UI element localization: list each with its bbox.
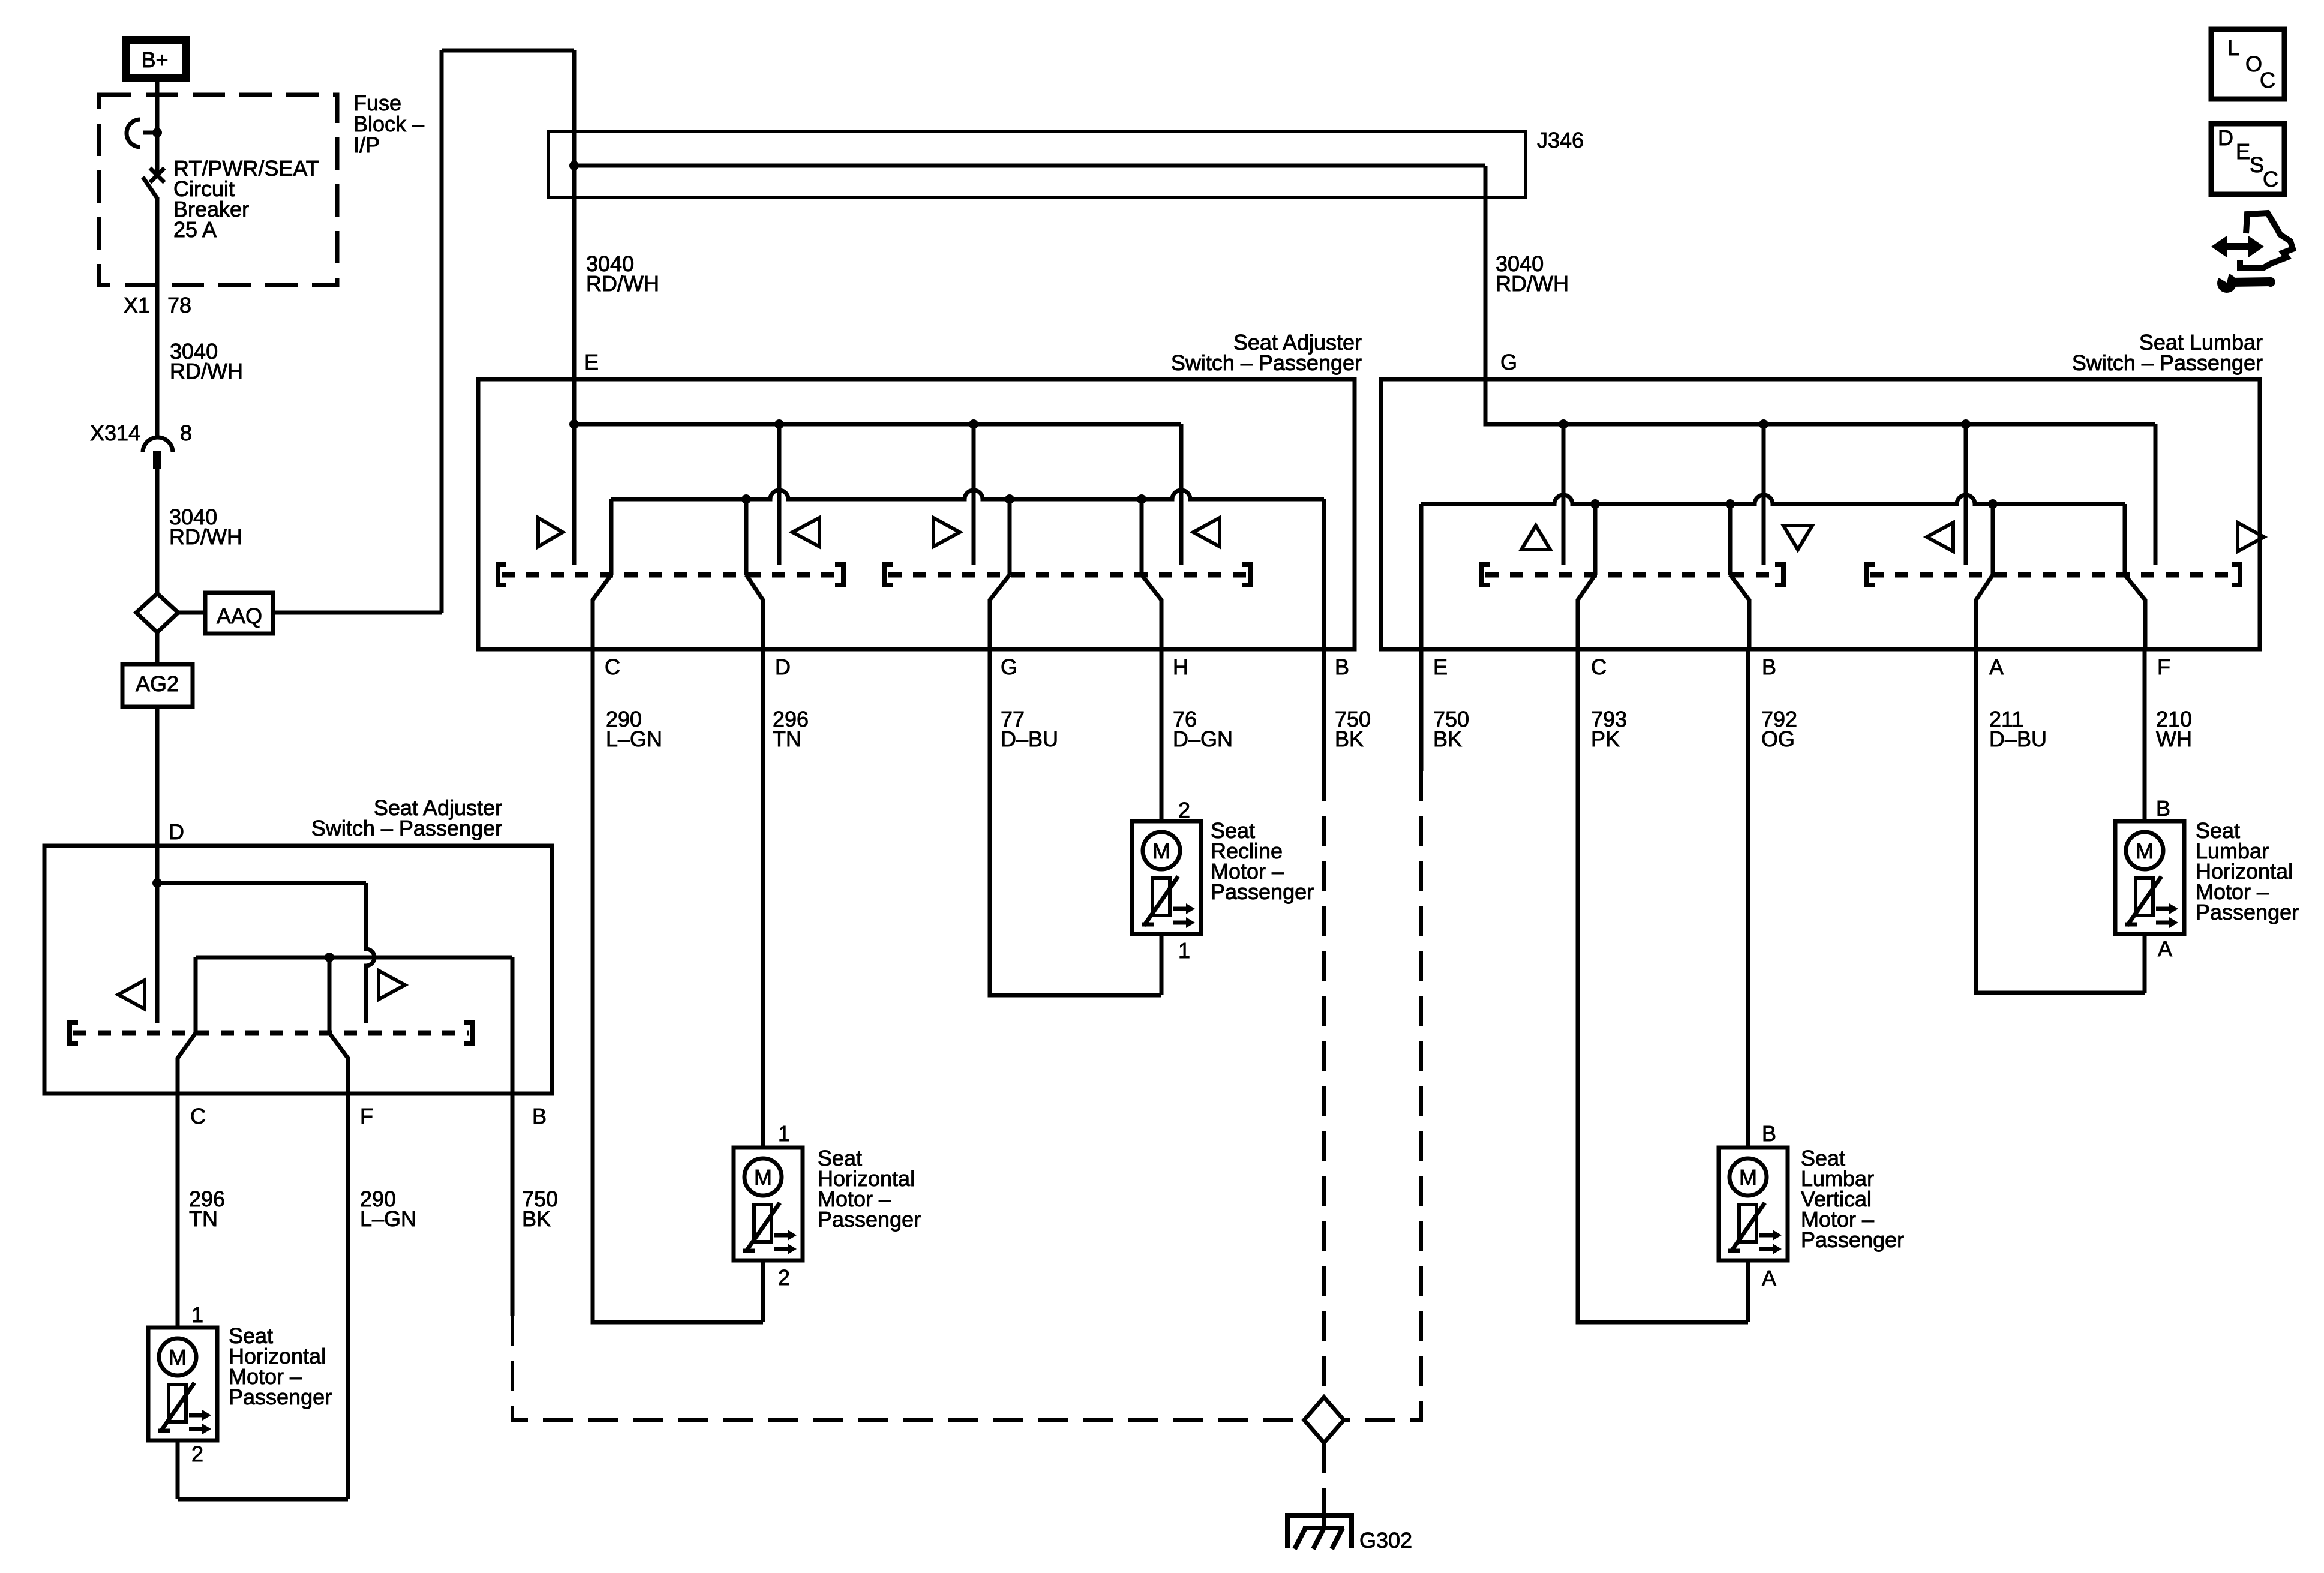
svg-text:B: B (1762, 655, 1776, 679)
svg-text:Passenger: Passenger (2196, 900, 2299, 924)
svg-text:F: F (360, 1104, 373, 1128)
svg-text:J346: J346 (1537, 128, 1584, 152)
svg-text:WH: WH (2156, 727, 2192, 751)
svg-text:M: M (2136, 839, 2154, 863)
svg-text:RD/WH: RD/WH (1496, 271, 1569, 296)
svg-text:TN: TN (773, 727, 801, 751)
svg-text:AG2: AG2 (136, 671, 179, 696)
svg-text:A: A (2158, 936, 2172, 961)
svg-text:78: 78 (167, 293, 191, 317)
svg-text:C: C (2263, 167, 2278, 191)
svg-text:D–BU: D–BU (1989, 727, 2047, 751)
svg-text:TN: TN (189, 1206, 218, 1231)
svg-text:Switch – Passenger: Switch – Passenger (2072, 350, 2263, 375)
svg-text:1: 1 (191, 1302, 203, 1327)
svg-text:B: B (2156, 796, 2170, 821)
svg-text:2: 2 (1178, 798, 1190, 822)
svg-text:25 A: 25 A (173, 217, 217, 242)
svg-text:L: L (2227, 35, 2239, 60)
svg-text:OG: OG (1761, 727, 1795, 751)
svg-text:RD/WH: RD/WH (169, 524, 242, 549)
svg-text:PK: PK (1591, 727, 1620, 751)
svg-text:G: G (1001, 655, 1017, 679)
svg-text:E: E (584, 350, 599, 374)
svg-text:Passenger: Passenger (229, 1385, 332, 1409)
svg-text:C: C (2260, 68, 2275, 92)
svg-text:E: E (1433, 655, 1448, 679)
svg-text:BK: BK (522, 1206, 551, 1231)
svg-text:Switch – Passenger: Switch – Passenger (311, 816, 502, 840)
svg-text:H: H (1173, 655, 1188, 679)
svg-text:8: 8 (180, 421, 192, 445)
svg-text:AAQ: AAQ (217, 604, 262, 628)
svg-text:D–BU: D–BU (1001, 727, 1058, 751)
svg-text:S: S (2250, 152, 2264, 177)
svg-text:D–GN: D–GN (1173, 727, 1233, 751)
svg-text:B: B (1335, 655, 1349, 679)
svg-text:C: C (1591, 655, 1607, 679)
svg-text:Passenger: Passenger (1211, 879, 1314, 904)
svg-text:G302: G302 (1359, 1528, 1412, 1553)
svg-text:1: 1 (1178, 938, 1190, 963)
svg-text:M: M (169, 1345, 187, 1370)
svg-text:G: G (1500, 350, 1517, 374)
svg-text:B: B (1762, 1121, 1776, 1146)
svg-text:I/P: I/P (353, 133, 380, 157)
svg-text:B: B (532, 1104, 547, 1128)
svg-text:B+: B+ (141, 47, 168, 72)
svg-text:C: C (190, 1104, 206, 1128)
svg-text:X1: X1 (124, 293, 150, 317)
svg-text:RD/WH: RD/WH (170, 359, 243, 383)
svg-text:2: 2 (778, 1265, 790, 1290)
svg-text:L–GN: L–GN (606, 727, 662, 751)
svg-text:Switch – Passenger: Switch – Passenger (1171, 350, 1362, 375)
svg-text:D: D (169, 819, 184, 844)
svg-text:A: A (1762, 1266, 1776, 1290)
svg-text:M: M (1152, 839, 1170, 863)
svg-text:M: M (754, 1165, 772, 1190)
svg-text:E: E (2236, 139, 2250, 164)
svg-text:X314: X314 (90, 421, 140, 445)
svg-text:BK: BK (1433, 727, 1462, 751)
svg-text:L–GN: L–GN (360, 1206, 416, 1231)
svg-text:C: C (605, 655, 620, 679)
svg-text:A: A (1989, 655, 2004, 679)
svg-text:2: 2 (191, 1442, 203, 1466)
svg-text:D: D (2218, 125, 2233, 150)
svg-text:D: D (775, 655, 791, 679)
svg-text:F: F (2157, 655, 2170, 679)
svg-text:M: M (1739, 1165, 1757, 1190)
svg-text:RD/WH: RD/WH (586, 271, 659, 296)
svg-text:1: 1 (778, 1121, 790, 1146)
svg-text:BK: BK (1335, 727, 1364, 751)
svg-text:Passenger: Passenger (818, 1207, 921, 1232)
svg-text:Passenger: Passenger (1801, 1227, 1904, 1252)
